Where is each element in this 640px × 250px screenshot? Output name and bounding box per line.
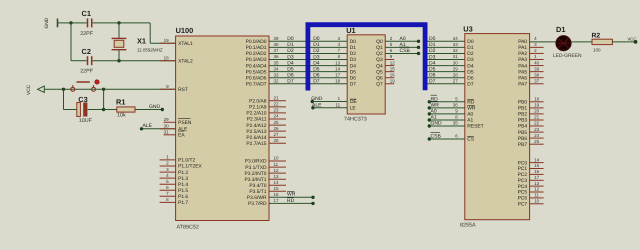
wire to C3 — [64, 109, 77, 111]
svg-text:P0.1/AD1: P0.1/AD1 — [246, 45, 267, 51]
U100 pin 19 XTAL1 — [160, 42, 176, 44]
svg-text:CS: CS — [467, 137, 475, 143]
svg-text:P2.4/A12: P2.4/A12 — [246, 123, 266, 129]
svg-text:PC2: PC2 — [518, 172, 528, 178]
svg-text:PB7: PB7 — [518, 142, 528, 148]
svg-text:D0: D0 — [467, 39, 474, 45]
svg-text:GND: GND — [431, 121, 443, 127]
svg-text:37: 37 — [274, 48, 280, 53]
wire node E to RST pin — [104, 88, 176, 90]
svg-text:D7: D7 — [350, 81, 357, 87]
svg-text:PC5: PC5 — [518, 190, 528, 196]
svg-text:21: 21 — [274, 96, 280, 101]
svg-text:D5: D5 — [350, 69, 357, 75]
svg-text:D6: D6 — [467, 75, 474, 81]
wire end dot GND — [428, 124, 431, 127]
svg-text:14: 14 — [274, 180, 280, 185]
wire D1 bus to U3 — [428, 46, 465, 48]
U100 pin 10 P3.0/RXD — [269, 160, 286, 162]
U1 pin 16 Q6 — [385, 77, 394, 79]
svg-text:15: 15 — [534, 163, 540, 168]
svg-text:18: 18 — [534, 97, 540, 102]
U100 pin 18 XTAL2 — [160, 60, 176, 62]
svg-text:15: 15 — [390, 66, 396, 71]
svg-text:XTAL1: XTAL1 — [178, 41, 193, 47]
svg-text:29: 29 — [164, 117, 170, 122]
wire ALE net — [142, 128, 176, 130]
U100 pin 2 P1.1/T2EX — [160, 165, 176, 167]
svg-text:PB2: PB2 — [518, 112, 528, 118]
svg-text:Q3: Q3 — [376, 57, 383, 63]
U100 pin 4 P1.3 — [160, 177, 176, 179]
wire end dot LE — [311, 106, 314, 109]
resistor R1 — [116, 98, 135, 119]
node C junction — [117, 59, 120, 62]
svg-text:ALE: ALE — [143, 123, 153, 129]
svg-text:D3: D3 — [467, 57, 474, 63]
U100 pin 30 ALE — [160, 128, 176, 130]
svg-text:LED-GREEN: LED-GREEN — [553, 53, 582, 59]
svg-text:X1: X1 — [137, 37, 146, 46]
svg-text:GND: GND — [44, 17, 50, 28]
svg-text:29: 29 — [453, 66, 459, 71]
U100 pin 24 P2.3/A11 — [269, 118, 286, 120]
svg-text:D7: D7 — [287, 79, 294, 85]
wire D0 bus to U3 — [428, 40, 465, 42]
svg-text:GND: GND — [149, 104, 161, 110]
U100 pin 9 RST — [160, 88, 176, 90]
svg-text:P0.2/AD2: P0.2/AD2 — [246, 51, 267, 57]
svg-text:WR: WR — [467, 106, 476, 112]
svg-text:13: 13 — [534, 181, 540, 186]
U3 pin 40 PA4 — [530, 65, 544, 67]
svg-text:PB0: PB0 — [518, 100, 528, 106]
svg-text:P1.7: P1.7 — [178, 200, 188, 206]
svg-text:PB1: PB1 — [518, 106, 528, 112]
wire D3 bus to U3 — [428, 59, 465, 61]
svg-text:37: 37 — [534, 78, 540, 83]
U100 pin 23 P2.2/A10 — [269, 112, 286, 114]
svg-text:D0: D0 — [350, 39, 357, 45]
U3 pin 10 PC7 — [530, 203, 544, 205]
svg-text:39: 39 — [274, 36, 280, 41]
wire D2 bus to U3 — [428, 52, 465, 54]
svg-text:P2.2/A10: P2.2/A10 — [246, 111, 266, 117]
wire node E down to node F — [103, 89, 105, 109]
svg-text:36: 36 — [453, 103, 459, 108]
svg-text:PC3: PC3 — [518, 178, 528, 184]
wire node B to corner — [119, 22, 150, 24]
U3 pin 24 PB6 — [530, 137, 544, 139]
svg-text:22: 22 — [274, 102, 280, 107]
svg-text:P2.6/A14: P2.6/A14 — [246, 135, 266, 141]
svg-text:22PF: 22PF — [80, 31, 94, 37]
U1 pin 15 Q5 — [385, 71, 394, 73]
svg-text:16: 16 — [390, 72, 396, 77]
wire end dot A1 — [417, 46, 420, 49]
U3 pin 16 PC2 — [530, 173, 544, 175]
svg-text:10k: 10k — [117, 113, 126, 119]
wire node F to R1 — [104, 109, 117, 111]
svg-text:P3.1/TXD: P3.1/TXD — [245, 165, 267, 171]
wire end dot WR — [311, 196, 314, 199]
U3 pin 14 PC0 — [530, 162, 544, 164]
U3 pin 2 PA2 — [530, 52, 544, 54]
wire end dot WR — [428, 106, 431, 109]
ground — [44, 17, 61, 28]
U3 pin 12 PC5 — [530, 191, 544, 193]
svg-text:CSB: CSB — [400, 48, 411, 54]
svg-text:RD: RD — [287, 198, 295, 204]
wire end dot A0 — [428, 112, 431, 115]
U100 pin 12 P3.2/INT0 — [269, 172, 286, 174]
U3 pin 19 PB1 — [530, 107, 544, 109]
svg-text:12: 12 — [390, 60, 396, 65]
svg-text:D1: D1 — [556, 25, 565, 34]
U100 pin 14 P3.4/T0 — [269, 184, 286, 186]
wire D6 U100 to U1 — [269, 77, 347, 79]
svg-text:PB5: PB5 — [518, 130, 528, 136]
svg-text:P0.5/AD5: P0.5/AD5 — [246, 69, 267, 75]
svg-text:38: 38 — [274, 42, 280, 47]
svg-text:PA2: PA2 — [518, 51, 527, 57]
wire OE net GND — [312, 101, 347, 103]
svg-text:38: 38 — [534, 72, 540, 77]
wire A1 net to U3 — [429, 119, 465, 121]
svg-text:33: 33 — [274, 72, 280, 77]
svg-text:16: 16 — [274, 192, 280, 197]
svg-text:RST: RST — [178, 87, 188, 93]
svg-text:C1: C1 — [82, 9, 91, 18]
U100 pin 6 P1.5 — [160, 189, 176, 191]
svg-text:15: 15 — [274, 186, 280, 191]
svg-text:P3.4/T0: P3.4/T0 — [249, 183, 266, 189]
svg-text:Q0: Q0 — [376, 39, 383, 45]
U100 pin 7 P1.6 — [160, 195, 176, 197]
svg-text:25: 25 — [534, 139, 540, 144]
resistor R2 — [592, 32, 613, 52]
svg-text:PB4: PB4 — [518, 124, 528, 130]
svg-text:PA6: PA6 — [518, 75, 527, 81]
svg-text:PC6: PC6 — [518, 196, 528, 202]
svg-text:28: 28 — [274, 138, 280, 143]
svg-text:P2.1/A9: P2.1/A9 — [249, 105, 267, 111]
wire node D to button — [64, 88, 104, 90]
svg-text:PB3: PB3 — [518, 118, 528, 124]
svg-text:10UF: 10UF — [79, 118, 93, 124]
U100 pin 26 P2.5/A13 — [269, 130, 286, 132]
svg-text:P2.7/A15: P2.7/A15 — [246, 141, 266, 147]
led D1 — [553, 25, 582, 59]
svg-text:24: 24 — [274, 114, 280, 119]
wire vcc to node D — [47, 88, 64, 90]
svg-text:14: 14 — [335, 66, 341, 71]
svg-text:23: 23 — [274, 108, 280, 113]
svg-text:33: 33 — [453, 42, 459, 47]
wire D4 U100 to U1 — [269, 65, 347, 67]
svg-text:CSB: CSB — [431, 134, 442, 140]
svg-text:11.0592MHZ: 11.0592MHZ — [137, 47, 163, 52]
svg-text:RESET: RESET — [467, 124, 483, 130]
svg-text:11: 11 — [534, 193, 539, 198]
wire R1 to GND label — [135, 109, 162, 111]
svg-text:LE: LE — [350, 106, 357, 112]
wire D2 U100 to U1 — [269, 52, 347, 54]
wire RD net — [269, 202, 313, 204]
U3 pin 13 PC4 — [530, 185, 544, 187]
svg-text:19: 19 — [390, 78, 396, 83]
svg-text:WR: WR — [287, 192, 296, 198]
svg-text:P3.2/INT0: P3.2/INT0 — [244, 171, 266, 177]
U3 pin 21 PB3 — [530, 119, 544, 121]
bus (blue) — [308, 25, 425, 91]
svg-text:30: 30 — [164, 124, 170, 129]
svg-text:P1.3: P1.3 — [178, 176, 188, 182]
wire WR net — [269, 196, 313, 198]
svg-text:P2.5/A13: P2.5/A13 — [246, 129, 266, 135]
node F junction — [102, 108, 105, 111]
svg-text:Q6: Q6 — [376, 75, 383, 81]
wire CSB net to U3 — [429, 138, 465, 140]
svg-text:U100: U100 — [176, 26, 194, 35]
wire D5 bus to U3 — [428, 71, 465, 73]
svg-text:D3: D3 — [350, 57, 357, 63]
wire Q2 to CSB label — [385, 52, 418, 54]
wire LE net ALE — [313, 107, 347, 109]
U3 pin 3 PA1 — [530, 46, 544, 48]
button RST — [71, 80, 99, 92]
svg-text:P1.5: P1.5 — [178, 188, 188, 194]
U3 pin 15 PC1 — [530, 168, 544, 170]
svg-text:17: 17 — [274, 198, 280, 203]
wire end dot A0 — [417, 40, 420, 43]
svg-text:A0: A0 — [467, 112, 473, 118]
svg-text:R1: R1 — [116, 98, 125, 107]
svg-text:11: 11 — [274, 162, 279, 167]
U100 pin 25 P2.4/A12 — [269, 124, 286, 126]
U1 pin 12 Q4 — [385, 65, 394, 67]
svg-text:A1: A1 — [467, 118, 473, 124]
wire PA0 to LED — [530, 41, 556, 43]
U100 pin 11 P3.1/TXD — [269, 166, 286, 168]
svg-text:R2: R2 — [592, 32, 601, 39]
wire Q0 to A0 label — [385, 40, 418, 42]
svg-text:PB6: PB6 — [518, 136, 528, 142]
svg-text:P1.2: P1.2 — [178, 170, 188, 176]
U100 pin 5 P1.4 — [160, 183, 176, 185]
U3 pin 37 PA7 — [530, 83, 544, 85]
capacitor C3 — [77, 95, 93, 124]
U3 pin 22 PB4 — [530, 125, 544, 127]
wire end dot CSB — [428, 137, 431, 140]
svg-text:P1.0/T2: P1.0/T2 — [178, 158, 195, 164]
svg-text:P3.6/WR: P3.6/WR — [247, 195, 267, 201]
svg-text:XTAL2: XTAL2 — [178, 58, 193, 64]
svg-text:RD: RD — [467, 100, 475, 106]
svg-text:10: 10 — [274, 156, 280, 161]
U100 pin 21 P2.0/A8 — [269, 100, 286, 102]
svg-text:P3.5/T1: P3.5/T1 — [249, 189, 266, 195]
wire D0 U100 to U1 — [269, 40, 347, 42]
svg-text:27: 27 — [453, 78, 459, 83]
svg-text:U1: U1 — [346, 26, 355, 35]
U3 pin 11 PC6 — [530, 197, 544, 199]
svg-text:P0.3/AD3: P0.3/AD3 — [246, 57, 267, 63]
svg-text:Q2: Q2 — [376, 51, 383, 57]
svg-text:14: 14 — [534, 157, 540, 162]
U3 pin 17 PC3 — [530, 179, 544, 181]
svg-text:C2: C2 — [82, 47, 91, 56]
svg-text:PA1: PA1 — [518, 45, 527, 51]
U100 pin 28 P2.7/A15 — [269, 142, 286, 144]
wire end dot OE — [311, 100, 314, 103]
svg-text:13: 13 — [335, 60, 341, 65]
svg-text:D7: D7 — [467, 81, 474, 87]
svg-text:32: 32 — [453, 48, 459, 53]
node A junction — [69, 21, 72, 24]
wire C3 to node F — [88, 109, 104, 111]
wire D5 U100 to U1 — [269, 71, 347, 73]
power VCC left — [26, 84, 47, 95]
wire D7 U100 to U1 — [269, 83, 347, 85]
svg-text:11: 11 — [336, 103, 341, 108]
U3 pin 38 PA6 — [530, 77, 544, 79]
wire to XTAL1 pin — [150, 42, 175, 44]
svg-text:PA7: PA7 — [518, 81, 527, 87]
node B junction — [117, 21, 120, 24]
svg-text:D1: D1 — [467, 45, 474, 51]
svg-text:34: 34 — [274, 66, 280, 71]
wire D7 bus to U3 — [428, 83, 465, 85]
svg-text:P1.1/T2EX: P1.1/T2EX — [178, 164, 202, 170]
op-amp U100 body — [176, 36, 269, 221]
svg-text:VCC: VCC — [26, 84, 32, 95]
svg-text:10: 10 — [534, 199, 540, 204]
U3 pin 39 PA5 — [530, 71, 544, 73]
svg-text:U3: U3 — [463, 25, 472, 34]
svg-text:PC4: PC4 — [518, 184, 528, 190]
svg-text:25: 25 — [274, 120, 280, 125]
svg-text:22: 22 — [534, 121, 540, 126]
wire end dot CSB — [417, 52, 420, 55]
svg-text:D4: D4 — [467, 63, 474, 69]
svg-text:Q7: Q7 — [376, 81, 383, 87]
wire node B down to crystal — [118, 23, 120, 39]
svg-text:D7: D7 — [429, 79, 436, 85]
svg-text:30: 30 — [453, 60, 459, 65]
svg-text:8255A: 8255A — [460, 223, 476, 229]
svg-text:P3.0/RXD: P3.0/RXD — [245, 159, 267, 165]
wire node A row to C2 — [71, 60, 87, 62]
svg-text:Q4: Q4 — [376, 63, 383, 69]
U1 pin 9 Q3 — [385, 59, 394, 61]
U1 pin 19 Q7 — [385, 83, 394, 85]
svg-text:18: 18 — [335, 78, 341, 83]
svg-text:74HC373: 74HC373 — [344, 116, 367, 122]
wire gnd to node A — [61, 22, 72, 24]
svg-text:36: 36 — [274, 54, 280, 59]
wire node A to C1 — [71, 22, 87, 24]
wire node D down — [63, 89, 65, 109]
wire end dot ALE — [140, 127, 143, 130]
svg-text:D7: D7 — [313, 79, 320, 85]
svg-text:17: 17 — [335, 72, 341, 77]
svg-text:P2.3/A11: P2.3/A11 — [247, 117, 267, 123]
svg-text:P1.4: P1.4 — [178, 182, 188, 188]
svg-text:32: 32 — [274, 78, 280, 83]
wire end dot A1 — [428, 118, 431, 121]
wire LED to R2 — [571, 41, 592, 43]
svg-text:23: 23 — [534, 127, 540, 132]
wire end dot GND — [161, 108, 164, 111]
U100 pin 29 PSEN — [164, 121, 176, 123]
svg-text:EA: EA — [178, 133, 185, 139]
svg-text:PA5: PA5 — [518, 69, 527, 75]
U100 pin 3 P1.2 — [160, 171, 176, 173]
wire D6 bus to U3 — [428, 77, 465, 79]
svg-text:PC1: PC1 — [518, 166, 528, 172]
svg-text:16: 16 — [534, 169, 540, 174]
svg-text:35: 35 — [274, 60, 280, 65]
wire node A down to C2 row — [70, 23, 72, 61]
svg-text:PC0: PC0 — [518, 160, 528, 166]
svg-text:P0.6/AD6: P0.6/AD6 — [246, 75, 267, 81]
svg-text:18: 18 — [164, 55, 170, 60]
svg-text:21: 21 — [534, 115, 540, 120]
wire C2 to XTAL2 pin — [93, 60, 176, 62]
svg-text:D2: D2 — [467, 51, 474, 57]
wire RD net to U3 — [429, 101, 465, 103]
capacitor C1 — [80, 9, 94, 37]
wire D4 bus to U3 — [428, 65, 465, 67]
svg-text:D4: D4 — [350, 63, 357, 69]
U3 pin 23 PB5 — [530, 131, 544, 133]
wire D3 U100 to U1 — [269, 59, 347, 61]
svg-text:P0.4/AD4: P0.4/AD4 — [246, 63, 267, 69]
ppi U3 body — [465, 34, 530, 220]
svg-text:OE: OE — [350, 99, 358, 105]
wire A0 net to U3 — [429, 113, 465, 115]
U3 pin 25 PB7 — [530, 143, 544, 145]
svg-text:12: 12 — [534, 187, 540, 192]
svg-text:19: 19 — [534, 103, 540, 108]
svg-text:22PF: 22PF — [80, 69, 94, 75]
U100 pin 22 P2.1/A9 — [269, 106, 286, 108]
wire end dot RD — [311, 202, 314, 205]
node E junction — [102, 88, 105, 91]
svg-text:34: 34 — [453, 36, 459, 41]
svg-text:17: 17 — [534, 175, 540, 180]
wire GND net to U3 — [429, 125, 465, 127]
U100 pin 15 P3.5/T1 — [269, 190, 286, 192]
svg-text:P1.6: P1.6 — [178, 194, 188, 200]
svg-text:20: 20 — [534, 109, 540, 114]
svg-text:28: 28 — [453, 72, 459, 77]
svg-text:P0.0/AD0: P0.0/AD0 — [246, 39, 267, 45]
svg-text:35: 35 — [453, 121, 459, 126]
node D junction — [62, 88, 65, 91]
svg-text:PA4: PA4 — [518, 63, 527, 69]
U100 pin 31 EA — [164, 134, 176, 136]
U100 pin 13 P3.3/INT1 — [269, 178, 286, 180]
svg-text:19: 19 — [164, 38, 170, 43]
capacitor C2 — [80, 47, 94, 75]
svg-text:31: 31 — [453, 54, 459, 59]
U100 pin 8 P1.7 — [160, 201, 176, 203]
svg-text:31: 31 — [164, 130, 170, 135]
svg-text:PC7: PC7 — [518, 202, 528, 208]
wire R2 to VCC — [612, 41, 635, 43]
